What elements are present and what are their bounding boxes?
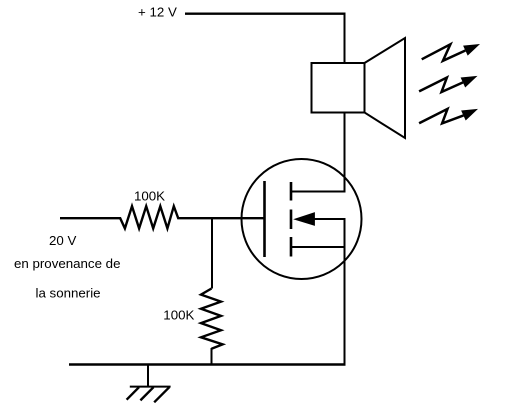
svg-text:en provenance de: en provenance de (14, 256, 120, 271)
svg-text:20 V: 20 V (49, 233, 76, 248)
wire junction to R2 vertical (211, 218, 213, 288)
speaker LS1 cone (365, 38, 406, 138)
ground bar (130, 386, 171, 388)
wire input lead + resistor R1 zigzag + wire to gate (60, 206, 265, 228)
sound wave arrow 3 (419, 109, 478, 124)
sound wave arrow 2 (419, 76, 477, 92)
ground hatch 2 (140, 387, 153, 400)
ground hatch 1 (127, 387, 139, 400)
wire R2 bottom lead (211, 348, 213, 364)
svg-text:+ 12 V: + 12 V (138, 4, 177, 19)
speaker LS1 body (312, 63, 365, 113)
svg-text:100K: 100K (134, 189, 165, 204)
ground hatch 3 (154, 387, 169, 402)
resistor R2 zigzag vertical (201, 289, 223, 349)
wire source vertical down to bottom rail (344, 219, 346, 366)
transistor Q1 drain horizontal (291, 191, 346, 193)
sound wave arrow 1 (422, 44, 480, 61)
transistor Q1 gate bar (263, 181, 266, 257)
transistor Q1 source horizontal (291, 246, 346, 248)
svg-text:100K: 100K (163, 307, 194, 322)
transistor Q1 body arrow (312, 218, 346, 220)
wire top rail from +12V to speaker/drain (185, 12, 345, 14)
wire drain vertical (top rail down to MOSFET drain) (344, 13, 346, 193)
transistor Q1 channel dashes (290, 182, 293, 257)
transistor Q1 MOSFET circle (242, 159, 362, 279)
wire bottom rail (69, 363, 346, 366)
svg-text:la sonnerie: la sonnerie (36, 286, 101, 301)
ground stub (147, 364, 149, 386)
